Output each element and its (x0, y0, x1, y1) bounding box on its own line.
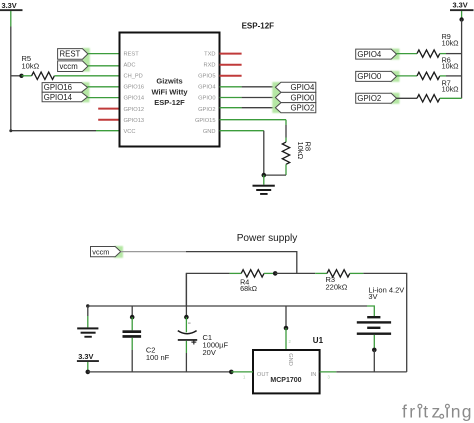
svg-text:OUT: OUT (257, 372, 270, 378)
wire R5 branch from rail (11, 75, 22, 77)
svg-text:vccm: vccm (60, 62, 78, 71)
wire GPIO4 pin lead (green) (220, 86, 242, 88)
svg-text:GPIO0: GPIO0 (357, 72, 381, 81)
resistor R4 (241, 270, 264, 277)
junction dot above ground (262, 173, 267, 178)
wire U1 GND pin lead (green) (285, 328, 287, 350)
resistor R6 (417, 72, 440, 79)
junction dot right of R4 (273, 271, 278, 276)
wire R4 left lead (green) (230, 272, 242, 274)
net label flag GPIO0 (right) (275, 92, 315, 102)
wire GPIO2 flag to R7 (dark) (397, 97, 418, 99)
svg-text:GPIO0: GPIO0 (198, 96, 215, 102)
svg-text:10kΩ: 10kΩ (22, 62, 40, 71)
wire R4 dot to R3 (dark) (275, 272, 315, 274)
label C1 polarity minus (188, 322, 191, 324)
svg-text:ESP-12F: ESP-12F (242, 22, 275, 31)
battery Li-ion (357, 316, 391, 335)
svg-text:GPIO4: GPIO4 (290, 83, 314, 92)
svg-text:3V: 3V (368, 292, 377, 301)
wire GPIO16 flag to pin (green) (88, 86, 120, 88)
wire GPIO0 to flag (dark) (242, 97, 276, 99)
wire GPIO14 flag to pin (green) (88, 97, 120, 99)
svg-text:GPIO4: GPIO4 (357, 50, 381, 59)
svg-text:3.3V: 3.3V (2, 1, 17, 10)
junction dot left rail corner (9, 129, 12, 132)
wire C1 bottom lead (green/dark) (185, 341, 187, 353)
wire REST flag to REST pin (green) (88, 53, 120, 55)
wire R5 left lead (green) (22, 75, 32, 77)
svg-text:10kΩ: 10kΩ (442, 39, 460, 48)
wire 3.3V bottom lead (green) (87, 362, 89, 372)
junction dot bottom-left (86, 370, 91, 375)
op-amp / IC U? ESP-12F module block (120, 33, 220, 147)
svg-text:100 nF: 100 nF (146, 353, 170, 362)
svg-text:GPIO13: GPIO13 (124, 118, 145, 124)
junction dot U1 GND (284, 326, 289, 331)
wire vccm flag (light gray) (121, 251, 186, 253)
wire OUT pin lead (green) (231, 371, 253, 373)
svg-text:GPIO15: GPIO15 (195, 118, 216, 124)
svg-text:vccm: vccm (92, 247, 109, 256)
svg-text:MCP1700: MCP1700 (270, 377, 301, 384)
svg-text:REST: REST (124, 51, 140, 57)
svg-text:CH_PD: CH_PD (124, 74, 143, 80)
wire R3 left lead (green) (315, 272, 327, 274)
wire R6 to rail (440, 75, 446, 77)
power symbol 3.3V top-right (450, 1, 474, 12)
svg-text:20V: 20V (203, 348, 216, 357)
svg-text:WiFi Witty: WiFi Witty (151, 87, 188, 96)
glow behind GPIO2 top-right flag tip (390, 93, 400, 104)
svg-text:U1: U1 (313, 336, 324, 345)
wire GPIO13 (red) (98, 119, 120, 121)
svg-text:GPIO2: GPIO2 (290, 104, 314, 113)
wire GPIO4 flag to R9 (green) (397, 53, 418, 55)
svg-text:GPIO14: GPIO14 (124, 96, 145, 102)
junction dot upper rail left corner (86, 304, 89, 307)
svg-text:REST: REST (60, 50, 81, 59)
svg-text:GND: GND (203, 129, 216, 135)
wire R4 row left vertical (dark) (186, 273, 229, 306)
voltage regulator U1 MCP1700 (253, 350, 320, 393)
svg-text:t: t (423, 401, 428, 421)
net label flag GPIO4 (top right) (356, 49, 397, 59)
resistor R3 (327, 270, 350, 277)
net label flag GPIO4 (right) (275, 82, 315, 92)
wire GPIO2 to flag (dark) (242, 107, 276, 109)
junction dot top-right (459, 17, 463, 21)
net label flag vccm (58, 61, 88, 72)
svg-text:GPIO12: GPIO12 (124, 107, 145, 113)
capacitor C2 (123, 330, 142, 338)
svg-text:10kΩ: 10kΩ (442, 62, 460, 71)
wire GPIO12 (red) (98, 108, 120, 110)
wire U1 GND from rail (dark) (285, 306, 287, 328)
wire C2 top lead (green) (131, 317, 133, 330)
wire R4 right lead (green) (264, 272, 275, 274)
junction dot R5 left (19, 74, 23, 78)
wire R8 bottom to ground junction (dark) (264, 174, 286, 176)
wire GPIO4 to flag (dark) (242, 86, 276, 88)
wire R3 right lead (green) (350, 272, 364, 274)
resistor R5 (32, 72, 55, 79)
svg-text:3.3V: 3.3V (78, 352, 93, 361)
net label flag GPIO0 (top right) (356, 71, 397, 81)
wire battery bottom lead (green) (373, 335, 375, 350)
wire upper rail (dark) (88, 305, 367, 307)
wire TXD (red) (220, 53, 242, 55)
glow behind GPIO4 top-right flag tip (390, 49, 400, 60)
svg-text:GPIO4: GPIO4 (198, 85, 215, 91)
wire GPIO0 pin lead (green) (220, 97, 242, 99)
junction dot C2 top (130, 315, 135, 320)
junction dot C1 top (184, 315, 189, 320)
svg-text:GPIO5: GPIO5 (198, 74, 215, 80)
svg-text:n: n (451, 401, 461, 421)
svg-text:3.3V: 3.3V (453, 1, 468, 10)
wire vccm flag to ADC pin (green) (88, 65, 120, 67)
wire R3 to right corner down (dark) (363, 273, 406, 372)
wire R9 to rail (440, 53, 446, 55)
net label flag REST (58, 49, 88, 60)
pin label GND (rotated) (287, 353, 293, 366)
wire GPIO0 flag to R6 (green) (397, 75, 418, 77)
svg-text:VCC: VCC (124, 129, 136, 135)
power symbol 3.3V bottom-left (77, 352, 99, 362)
svg-text:220kΩ: 220kΩ (326, 283, 348, 292)
svg-text:Gizwits: Gizwits (156, 77, 182, 86)
junction dot OUT wire (229, 370, 234, 375)
wire IN pin lead (green) (320, 371, 337, 373)
wire left ground lead (87, 306, 89, 316)
wire GND down to ground (dark) (263, 131, 265, 175)
wire R5 to CH_PD pin (green) (54, 75, 119, 77)
wire battery to bottom rail (dark) (373, 350, 375, 372)
svg-text:10kΩ: 10kΩ (296, 142, 305, 160)
svg-text:ADC: ADC (124, 63, 136, 69)
wire GPIO2 pin lead (green) (220, 107, 242, 109)
svg-text:GPIO16: GPIO16 (44, 83, 72, 92)
net label flag GPIO2 (right) (275, 103, 315, 113)
power symbol 3.3V top-left (0, 1, 23, 11)
svg-text:GPIO14: GPIO14 (44, 93, 73, 102)
net label flag vccm (power supply) (91, 247, 121, 257)
svg-text:RXD: RXD (203, 63, 215, 69)
glow behind right GPIO flag tips (272, 82, 281, 113)
svg-text:Power supply: Power supply (237, 233, 299, 244)
wire C1 top lead (green) (185, 317, 187, 332)
wire RXD (red) (220, 64, 242, 66)
wire C2 from rail (dark) (131, 306, 133, 317)
resistor R9 (417, 50, 440, 57)
wire upper rail right end (green) (367, 306, 374, 316)
fritzing watermark (402, 401, 471, 421)
wire left rail down to VCC row (11, 27, 96, 131)
wire R7 to rail (440, 97, 462, 99)
wire bottom rail (dark) (88, 371, 232, 373)
svg-text:10kΩ: 10kΩ (442, 85, 460, 94)
glow behind GPIO0 top-right flag tip (390, 71, 400, 82)
net label flag GPIO16 (42, 83, 87, 93)
capacitor C1 (electrolytic) (178, 331, 197, 341)
wire right rail down (dark) (461, 20, 463, 99)
svg-text:GPIO16: GPIO16 (124, 85, 145, 91)
wire IN to right corner (dark) (336, 371, 406, 373)
glow behind GPIO16/GPIO14 flag tips (82, 82, 90, 102)
net label flag GPIO14 (42, 92, 87, 102)
svg-text:f: f (402, 401, 407, 421)
svg-text:GPIO2: GPIO2 (198, 107, 215, 113)
wire R8 bottom lead (green) (285, 164, 287, 175)
wire vccm to R4 row (dark) (186, 252, 297, 274)
wire GPIO15 pin lead (green) (220, 119, 287, 121)
glow behind REST/vccm flag tips (82, 48, 90, 72)
svg-text:r: r (409, 401, 415, 421)
wire C2 bottom lead (green/dark) (131, 338, 133, 350)
resistor R8 (282, 142, 289, 164)
svg-text:IN: IN (311, 372, 317, 378)
svg-text:z: z (432, 401, 441, 421)
wire GPIO5 (red) (220, 75, 242, 77)
wire 3.3V lead (green) (461, 11, 463, 20)
wire ground lead (green) (263, 175, 265, 185)
svg-text:ESP-12F: ESP-12F (154, 98, 185, 107)
wire GND pin lead (green) (220, 130, 264, 132)
svg-text:68kΩ: 68kΩ (240, 284, 258, 293)
ground symbol (left, power supply) (77, 327, 98, 337)
svg-text:GPIO0: GPIO0 (290, 93, 314, 102)
wire GPIO15 down to R8 (green/dark) (285, 120, 287, 125)
resistor R7 (417, 95, 440, 102)
junction dot battery bottom (372, 348, 377, 353)
ground symbol (R8/GND net) (253, 185, 275, 195)
wire 3.3V lead (green) (10, 11, 12, 27)
label C1 polarity plus (191, 340, 196, 345)
svg-text:GPIO2: GPIO2 (357, 94, 381, 103)
svg-text:TXD: TXD (204, 51, 215, 57)
wire C1 from R4 row crossing rail (dark) (185, 273, 187, 317)
glow behind vccm power-supply flag tip (114, 246, 123, 258)
label R8 10kΩ (rotated) (296, 142, 313, 160)
svg-text:g: g (462, 401, 472, 421)
svg-text:GND: GND (287, 353, 293, 366)
wire VCC pin lead (green) (96, 130, 120, 132)
net label flag GPIO2 (top right) (356, 93, 397, 103)
